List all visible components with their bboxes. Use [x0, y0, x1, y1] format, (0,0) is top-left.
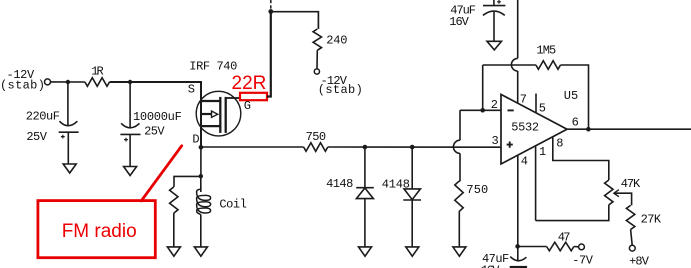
resistor R unlabeled FM branch [170, 187, 178, 213]
wire pin2 feed left corner [460, 110, 501, 140]
wire wiper to 27K [614, 193, 632, 205]
wire 240 to terminal [316, 50, 318, 69]
capacitor C 220uF curved plate [59, 121, 77, 126]
junction dot at 220uF tap [66, 80, 70, 84]
wire hop to pin7 [517, 71, 519, 103]
junction dot coil branch [199, 174, 203, 178]
ground arrow under FM resistor [167, 247, 180, 256]
transistor body tap [201, 113, 212, 115]
junction dot diode2 tap [410, 145, 415, 150]
svg-text:IRF 740: IRF 740 [189, 59, 237, 73]
svg-text:2: 2 [491, 98, 498, 112]
wire V- node to 47 resistor [518, 246, 547, 248]
node +8V terminal [629, 245, 635, 251]
svg-text:750: 750 [466, 183, 488, 197]
svg-text:4148: 4148 [326, 177, 353, 191]
wire hop pin7 over feedback [511, 58, 517, 71]
diode D1 4148 cathode bar [356, 187, 374, 189]
svg-text:-7V: -7V [572, 254, 594, 268]
wire pin8 down and right to 47K [553, 137, 609, 180]
transistor channel bar [219, 97, 221, 133]
svg-text:U5: U5 [564, 89, 578, 103]
resistor R 22R red box [240, 93, 267, 100]
capacitor C 10000uF plus mark [124, 138, 128, 142]
svg-text:D: D [192, 132, 199, 146]
capacitor C 47uF bottom curved plate [510, 257, 526, 261]
wire diode2 to ground [411, 200, 413, 247]
svg-text:FM radio: FM radio [62, 221, 137, 242]
wire coil to ground [200, 215, 202, 247]
annotation FM radio box [38, 201, 155, 258]
svg-text:220uF: 220uF [26, 109, 60, 123]
ground arrow under 750 shunt [453, 247, 466, 256]
svg-text:25V: 25V [144, 125, 165, 139]
diode D1 4148 wire [364, 147, 366, 188]
svg-text:4148: 4148 [382, 177, 410, 191]
diode D1 4148 triangle [356, 188, 373, 199]
svg-text:1R: 1R [91, 65, 104, 79]
wire left rail from 1R to MOSFET source corner [110, 82, 202, 147]
ground arrow under diode1 [359, 247, 372, 256]
ground arrow under 47uF16V [487, 41, 502, 50]
svg-text:8: 8 [556, 137, 563, 151]
wire main rail drain to 750 [201, 146, 304, 148]
wire 47 to -7V terminal [574, 246, 578, 248]
svg-text:47: 47 [558, 230, 571, 244]
transistor Q IRF740 circle [196, 91, 241, 136]
capacitor C 47uF bottom plate bar [510, 266, 527, 268]
wire 220uF to ground [67, 132, 69, 164]
svg-text:3: 3 [492, 134, 499, 148]
svg-text:22R: 22R [232, 73, 267, 94]
ground arrow under 10000uF [124, 167, 137, 176]
svg-text:5: 5 [539, 101, 546, 115]
wire dashed stub to top edge [270, 0, 272, 11]
wire 750 shunt to ground [458, 212, 460, 247]
wire drain node down to coil branch [200, 147, 202, 176]
transistor gate bar [225, 97, 227, 133]
op-amp plus sign [507, 142, 513, 148]
potentiometer wiper arrow [614, 190, 619, 197]
capacitor C 10000uF straight plate [120, 133, 140, 135]
wire pin4 down [517, 155, 519, 246]
op-amp minus sign [508, 109, 514, 111]
diode D2 4148 cathode bar [403, 199, 421, 201]
resistor R 750 shunt [455, 181, 463, 211]
node -7V terminal [579, 244, 585, 250]
potentiometer R 47K [605, 180, 613, 205]
transistor source tap [201, 100, 220, 102]
capacitor C 10000uF branch wire [129, 82, 131, 127]
wire 47uF16V to ground [493, 12, 495, 41]
resistor R 47 [547, 242, 574, 251]
svg-text:6: 6 [572, 116, 579, 130]
node -12V stab terminal left [45, 79, 51, 85]
wire feedback left segment [483, 64, 536, 66]
svg-text:(stab): (stab) [0, 79, 45, 93]
svg-text:5532: 5532 [511, 121, 539, 135]
wire left rail from terminal to 1R [51, 81, 85, 83]
junction dot V- node [515, 244, 520, 249]
node -12V stab terminal under 240 [314, 69, 319, 74]
annotation red pointer line [141, 146, 182, 201]
svg-text:16V: 16V [449, 15, 469, 29]
svg-text:1M5: 1M5 [536, 44, 556, 58]
svg-text:Coil: Coil [219, 198, 247, 212]
resistor R 27K [626, 205, 634, 229]
pin 5 stub [535, 94, 537, 113]
svg-text:27K: 27K [641, 212, 662, 226]
capacitor C 220uF branch wire [67, 82, 69, 126]
junction dot output node [586, 127, 591, 132]
op-amp U5 triangle [501, 94, 567, 164]
svg-text:7: 7 [520, 93, 527, 107]
capacitor C 47uF 16V curved plate [483, 11, 505, 15]
wire drain branch to coil [200, 176, 202, 192]
resistor R 750 series [304, 143, 328, 152]
resistor R 240 [313, 29, 321, 50]
inductor L coil loops [197, 186, 211, 215]
svg-text:16V.: 16V. [481, 264, 505, 268]
svg-text:750: 750 [306, 130, 327, 144]
wire diode1 to ground [364, 199, 366, 247]
junction dot drain node [199, 145, 204, 150]
wire top rail to 240 resistor [271, 12, 319, 29]
wire main rail 750 to op-amp plus input [328, 146, 501, 148]
wire 27K to +8V terminal [631, 230, 633, 246]
capacitor C 10000uF curved plate [121, 123, 139, 128]
wire 10000uF to ground [129, 134, 131, 166]
wire branch to FM resistor [174, 176, 201, 187]
svg-text:S: S [188, 83, 195, 97]
wire hop to 750 shunt [459, 153, 460, 181]
diode D2 4148 triangle [404, 189, 420, 200]
svg-text:+8V: +8V [629, 254, 650, 268]
svg-text:10000uF: 10000uF [133, 110, 182, 124]
svg-text:25V: 25V [26, 130, 47, 144]
svg-text:(stab): (stab) [318, 83, 363, 97]
capacitor C 47uF 16V straight plate [483, 5, 505, 7]
resistor R 1M5 [536, 61, 561, 70]
wire 47K bottom loop to pin1 [536, 205, 609, 221]
capacitor C 47uF 16V top stub [493, 0, 495, 6]
wire gate to 22R resistor [226, 97, 240, 99]
ground arrow under diode2 [406, 247, 419, 256]
resistor R1 1R [85, 78, 110, 87]
svg-text:4: 4 [521, 155, 528, 169]
wire 1M5 to output [561, 65, 589, 129]
capacitor C 220uF straight plate [59, 131, 79, 133]
wire pin7 vertical from top [517, 0, 519, 58]
wire output pin6 [567, 128, 691, 130]
capacitor C 47uF 16V plus mark [497, 0, 501, 4]
diode D2 4148 wire [411, 147, 413, 189]
ground arrow under 220uF [63, 164, 76, 173]
wire feedback corner down to pin2 node [482, 65, 484, 110]
svg-text:47K: 47K [621, 177, 641, 191]
junction dot pin2 feedback node [480, 108, 485, 113]
wire hop over main rail [453, 140, 460, 153]
capacitor C 47uF bottom wire [517, 246, 519, 261]
svg-text:G: G [244, 99, 251, 113]
transistor body arrow [212, 111, 218, 117]
capacitor C 220uF plus mark [61, 135, 65, 139]
wire 22R to top vertical [267, 12, 271, 97]
svg-text:1: 1 [539, 145, 546, 159]
transistor drain tap [201, 125, 220, 127]
wire pin1 down [535, 146, 537, 221]
junction dot at 10000uF tap [128, 80, 132, 84]
svg-text:240: 240 [326, 34, 347, 48]
junction dot top rail [268, 9, 273, 14]
junction dot diode1 tap [363, 145, 368, 150]
ground arrow under coil [194, 247, 207, 256]
wire FM resistor to ground [173, 213, 175, 247]
